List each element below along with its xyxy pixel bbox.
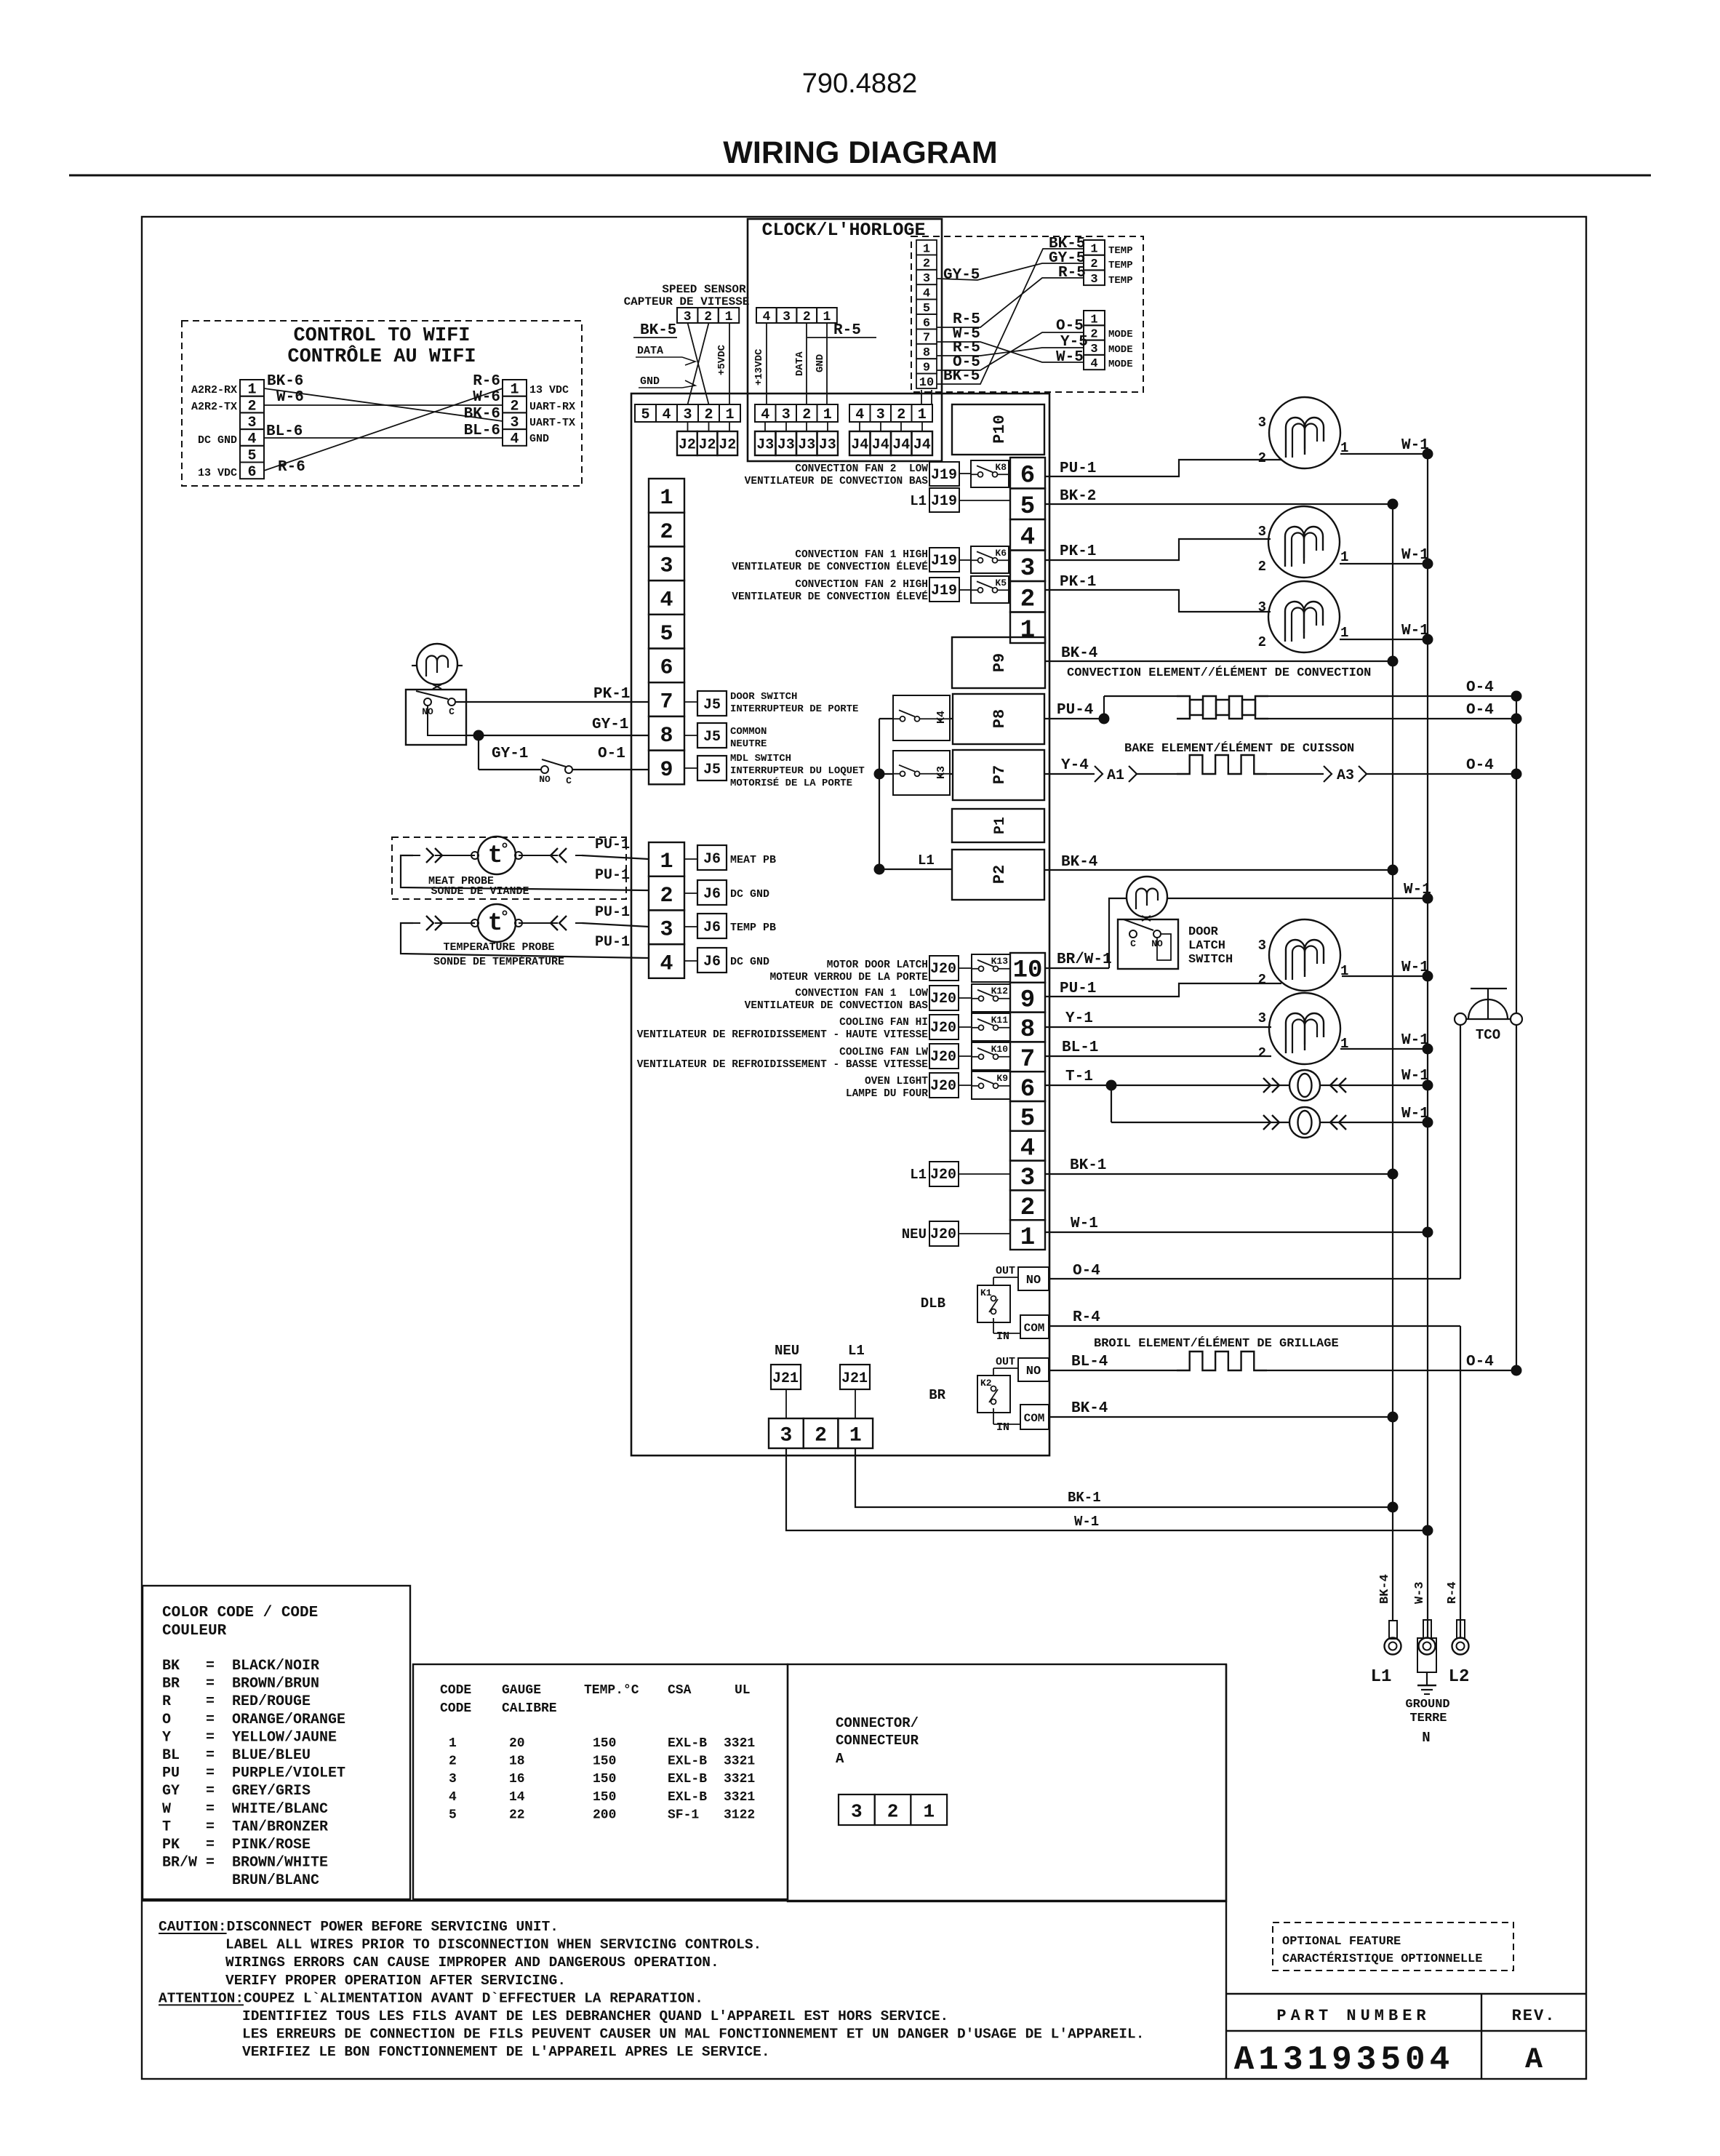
svg-text:IDENTIFIEZ TOUS LES FILS AVANT: IDENTIFIEZ TOUS LES FILS AVANT DE LES DE…	[242, 2008, 948, 2024]
svg-text:3: 3	[1020, 555, 1035, 583]
svg-text:4: 4	[1020, 524, 1035, 551]
svg-text:J19: J19	[931, 553, 957, 570]
svg-text:4: 4	[1090, 357, 1097, 371]
svg-text:4: 4	[662, 407, 671, 423]
svg-text:J2: J2	[679, 437, 696, 454]
svg-text:NEU: NEU	[775, 1343, 799, 1359]
svg-text:J3: J3	[777, 437, 795, 454]
svg-text:790.4882: 790.4882	[802, 68, 918, 99]
node oven light split	[1106, 1080, 1117, 1091]
svg-text:LAMPE DU FOUR: LAMPE DU FOUR	[846, 1088, 928, 1100]
wifi right connector pins 1-4	[503, 380, 527, 396]
J6 box temp pb	[697, 914, 727, 938]
svg-text:R-5: R-5	[1058, 265, 1086, 282]
svg-text:A3: A3	[1337, 767, 1354, 784]
svg-text:DOOR SWITCH: DOOR SWITCH	[730, 691, 797, 703]
svg-text:C: C	[1130, 938, 1136, 949]
svg-text:3: 3	[1090, 273, 1097, 287]
BK bus vertical	[1392, 504, 1393, 1621]
svg-text:O = ORANGE/ORANGE: O = ORANGE/ORANGE	[162, 1712, 345, 1728]
wire motor A to W bus	[1340, 453, 1428, 455]
svg-text:J4: J4	[872, 437, 889, 454]
svg-text:TCO: TCO	[1476, 1027, 1500, 1043]
J20 row7 K10 cooling fan lw	[929, 1044, 959, 1069]
ground symbol	[1426, 1672, 1428, 1685]
svg-text:J4: J4	[851, 437, 868, 454]
svg-text:TEMP: TEMP	[1108, 260, 1133, 271]
svg-text:O-4: O-4	[1466, 1354, 1494, 1370]
svg-text:REV.: REV.	[1512, 2007, 1556, 2025]
svg-text:CALIBRE: CALIBRE	[502, 1701, 557, 1716]
svg-text:9: 9	[1020, 986, 1035, 1014]
svg-text:1: 1	[1340, 549, 1348, 565]
svg-text:BK = BLACK/NOIR: BK = BLACK/NOIR	[162, 1658, 319, 1674]
svg-text:3: 3	[923, 272, 930, 286]
svg-text:CONVECTION FAN 2 LOW: CONVECTION FAN 2 LOW	[795, 463, 928, 475]
svg-text:6: 6	[247, 464, 256, 481]
P7 box	[953, 750, 1044, 800]
J2 wires	[687, 422, 689, 431]
svg-text:GND: GND	[815, 354, 826, 372]
svg-text:CONTROL TO WIFI: CONTROL TO WIFI	[293, 325, 470, 347]
J21 wires	[785, 1389, 787, 1418]
temperature probe symbol	[478, 904, 516, 942]
svg-text:INTERRUPTEUR DE PORTE: INTERRUPTEUR DE PORTE	[730, 703, 858, 715]
svg-text:K11: K11	[991, 1015, 1009, 1026]
svg-text:CONVECTION FAN 1 HIGH: CONVECTION FAN 1 HIGH	[795, 549, 928, 561]
J5 box mdl switch	[697, 756, 727, 780]
node L1 junction	[874, 864, 885, 875]
svg-text:J19: J19	[931, 493, 957, 510]
svg-text:J6: J6	[703, 886, 721, 903]
svg-text:L1: L1	[1371, 1667, 1392, 1687]
svg-text:4: 4	[1020, 1135, 1035, 1162]
svg-text:DATA: DATA	[637, 345, 663, 357]
svg-text:2: 2	[1258, 559, 1266, 575]
svg-text:W = WHITE/BLANC: W = WHITE/BLANC	[162, 1801, 328, 1818]
P9 box	[952, 637, 1045, 688]
svg-text:3: 3	[876, 407, 885, 423]
+5VDC wire	[729, 323, 730, 404]
svg-text:T-1: T-1	[1065, 1069, 1093, 1085]
svg-text:K13: K13	[991, 956, 1009, 967]
svg-text:2: 2	[923, 257, 930, 271]
svg-text:R-6: R-6	[473, 373, 500, 390]
DLB NO box	[1018, 1267, 1049, 1290]
svg-text:3321: 3321	[724, 1754, 755, 1769]
door motor	[417, 644, 457, 684]
svg-text:PU-1: PU-1	[595, 867, 630, 884]
svg-text:ATTENTION:COUPEZ L`ALIMENTATIO: ATTENTION:COUPEZ L`ALIMENTATION AVANT D`…	[159, 1990, 703, 2006]
svg-text:J3: J3	[798, 437, 815, 454]
svg-text:K9: K9	[996, 1073, 1008, 1084]
svg-text:MEAT PB: MEAT PB	[730, 854, 776, 866]
svg-text:BL-4: BL-4	[1071, 1354, 1108, 1370]
J20 row10 K13 motor door latch	[929, 956, 959, 981]
svg-text:1: 1	[918, 407, 927, 423]
svg-text:6: 6	[660, 656, 673, 681]
svg-text:J21: J21	[841, 1370, 868, 1387]
svg-text:R-5: R-5	[833, 322, 861, 339]
node BK bus top	[1388, 499, 1399, 510]
svg-text:4: 4	[660, 951, 673, 976]
svg-text:3: 3	[782, 407, 791, 423]
oven light 1	[1289, 1070, 1320, 1101]
J20 row3 L1	[929, 1162, 959, 1186]
K4 relay box	[893, 695, 950, 740]
svg-text:1: 1	[1090, 242, 1097, 256]
door switch box	[406, 690, 466, 745]
J4 plug boxes	[849, 431, 871, 455]
part number title box	[1226, 1993, 1586, 1995]
svg-text:6: 6	[923, 316, 930, 330]
svg-text:P2: P2	[991, 865, 1009, 884]
oven light 2	[1111, 1085, 1112, 1122]
svg-text:P8: P8	[991, 709, 1009, 728]
J19 plug row3 with K6	[929, 548, 959, 572]
svg-text:BR = BROWN/BRUN: BR = BROWN/BRUN	[162, 1676, 319, 1693]
svg-text:J5: J5	[703, 729, 721, 746]
svg-text:A2R2-TX: A2R2-TX	[191, 401, 237, 413]
svg-text:3122: 3122	[724, 1808, 755, 1822]
svg-text:PK-1: PK-1	[593, 686, 630, 703]
svg-text:WIRINGS ERRORS CAN CAUSE IMPRO: WIRINGS ERRORS CAN CAUSE IMPROPER AND DA…	[225, 1955, 719, 1971]
svg-text:COM: COM	[1024, 1412, 1045, 1425]
mdl switch	[479, 769, 541, 770]
clock right connector pins 1-10	[916, 240, 937, 255]
svg-text:MOTOR DOOR LATCH: MOTOR DOOR LATCH	[827, 959, 928, 971]
svg-text:LABEL ALL WIRES PRIOR TO DISCO: LABEL ALL WIRES PRIOR TO DISCONNECTION W…	[225, 1937, 761, 1953]
svg-text:C: C	[449, 706, 455, 717]
svg-text:UART-TX: UART-TX	[529, 417, 575, 429]
svg-text:13 VDC: 13 VDC	[198, 467, 237, 479]
svg-text:2: 2	[1090, 257, 1097, 271]
svg-text:CODE: CODE	[440, 1683, 471, 1698]
svg-text:Y-4: Y-4	[1061, 757, 1089, 774]
convection element upper resistor	[1104, 695, 1177, 697]
svg-text:1: 1	[1020, 617, 1035, 644]
svg-text:COULEUR: COULEUR	[162, 1623, 227, 1640]
motor door latch big	[1269, 919, 1340, 991]
J2 plug boxes	[677, 431, 697, 455]
svg-text:200: 200	[593, 1808, 616, 1822]
caution box top line	[142, 1900, 1226, 1901]
convection fan motor C	[1268, 581, 1340, 652]
svg-text:20: 20	[509, 1736, 525, 1751]
svg-text:TEMPERATURE PROBE: TEMPERATURE PROBE	[443, 941, 554, 954]
svg-text:3321: 3321	[724, 1790, 755, 1805]
svg-text:CSA: CSA	[668, 1683, 692, 1698]
J3 plug boxes	[755, 431, 776, 455]
svg-text:TEMP: TEMP	[1108, 275, 1133, 287]
svg-text:5: 5	[1020, 1106, 1035, 1133]
svg-text:A1: A1	[1107, 767, 1124, 784]
svg-text:4: 4	[510, 431, 519, 448]
connector A box	[788, 1664, 1226, 1901]
svg-text:J6: J6	[703, 851, 721, 868]
svg-text:BK-4: BK-4	[1378, 1574, 1392, 1604]
svg-text:CAPTEUR DE VITESSE: CAPTEUR DE VITESSE	[624, 295, 750, 308]
svg-text:EXL-B: EXL-B	[668, 1736, 707, 1751]
svg-text:SONDE DE TEMPÉRATURE: SONDE DE TEMPÉRATURE	[433, 955, 564, 968]
J19 plug row2 with K5	[929, 578, 959, 602]
J21 pin row 3-2-1	[769, 1418, 804, 1448]
svg-text:VERIFIEZ LE BON FONCTIONNEMENT: VERIFIEZ LE BON FONCTIONNEMENT DE L'APPA…	[242, 2044, 770, 2060]
svg-text:1: 1	[1340, 625, 1348, 641]
svg-text:150: 150	[593, 1736, 616, 1751]
svg-text:COM: COM	[1024, 1322, 1045, 1335]
svg-text:A: A	[836, 1751, 844, 1767]
title underline	[69, 175, 1651, 177]
svg-text:TEMP: TEMP	[1108, 245, 1133, 257]
svg-text:UL: UL	[735, 1683, 751, 1698]
svg-text:GY-1: GY-1	[492, 746, 528, 762]
svg-text:3: 3	[684, 310, 692, 324]
svg-text:GY = GREY/GRIS: GY = GREY/GRIS	[162, 1783, 311, 1800]
J20 row1 NEU	[929, 1221, 959, 1246]
P1 box	[952, 809, 1044, 842]
svg-text:K10: K10	[991, 1044, 1009, 1055]
K3 relay box	[893, 751, 950, 795]
svg-text:PU = PURPLE/VIOLET: PU = PURPLE/VIOLET	[162, 1765, 345, 1782]
svg-text:SPEED SENSOR: SPEED SENSOR	[662, 283, 746, 296]
optional feature dashed box	[1273, 1923, 1513, 1971]
svg-text:J21: J21	[772, 1370, 799, 1387]
svg-text:COOLING FAN HI: COOLING FAN HI	[839, 1017, 928, 1029]
svg-text:150: 150	[593, 1772, 616, 1786]
svg-text:PK-1: PK-1	[1060, 574, 1096, 591]
svg-text:DC GND: DC GND	[198, 434, 237, 447]
svg-text:GROUND: GROUND	[1405, 1698, 1449, 1712]
node W bus motorA	[1423, 449, 1433, 460]
svg-text:1: 1	[823, 407, 832, 423]
svg-text:3321: 3321	[724, 1772, 755, 1786]
J20 row6 K9 oven light	[929, 1073, 959, 1098]
svg-text:CODE: CODE	[440, 1701, 471, 1716]
svg-text:3: 3	[1020, 1165, 1035, 1192]
svg-text:1: 1	[923, 1800, 935, 1822]
svg-text:2: 2	[1258, 450, 1266, 466]
svg-text:J20: J20	[930, 1049, 956, 1066]
svg-text:10: 10	[919, 376, 934, 390]
node convection element split	[1099, 714, 1110, 724]
gauge table box	[413, 1664, 788, 1899]
svg-text:13 VDC: 13 VDC	[529, 384, 569, 396]
connector 4-3-2-1 J4 header	[849, 404, 871, 422]
svg-text:BR/W = BROWN/WHITE: BR/W = BROWN/WHITE	[162, 1855, 328, 1872]
svg-text:1: 1	[660, 850, 673, 874]
svg-text:22: 22	[509, 1808, 525, 1822]
svg-text:NEU: NEU	[902, 1226, 927, 1242]
door switch inner path	[428, 706, 466, 735]
P10 box	[952, 404, 1044, 455]
svg-text:5: 5	[923, 302, 930, 316]
svg-text:K6: K6	[995, 548, 1007, 559]
svg-text:BROIL ELEMENT/ÉLÉMENT DE GRILL: BROIL ELEMENT/ÉLÉMENT DE GRILLAGE	[1094, 1336, 1339, 1351]
svg-text:10: 10	[1013, 957, 1043, 985]
svg-text:5: 5	[641, 407, 649, 423]
svg-text:°: °	[500, 909, 509, 927]
svg-text:O-4: O-4	[1466, 679, 1494, 696]
svg-text:K2: K2	[980, 1378, 992, 1389]
J20 pin column 10-1	[1010, 953, 1045, 983]
mode connector pins 1-4	[1084, 311, 1105, 325]
svg-text:BK-4: BK-4	[1071, 1400, 1108, 1417]
svg-text:VENTILATEUR DE CONVECTION BAS: VENTILATEUR DE CONVECTION BAS	[745, 476, 929, 487]
J19 plug row6 with K8	[929, 462, 959, 486]
svg-text:P1: P1	[992, 817, 1009, 834]
J3 wires	[764, 422, 766, 431]
svg-text:O-5: O-5	[953, 354, 980, 371]
svg-text:CONVECTION ELEMENT//ÉLÉMENT DE: CONVECTION ELEMENT//ÉLÉMENT DE CONVECTIO…	[1067, 666, 1371, 680]
svg-text:GY-1: GY-1	[592, 716, 628, 733]
pin column 1-4 J6	[649, 842, 684, 877]
svg-text:BK-4: BK-4	[1061, 854, 1097, 871]
svg-text:6: 6	[1020, 1076, 1035, 1103]
svg-text:P9: P9	[991, 653, 1009, 672]
svg-text:LES ERREURS DE CONNECTION DE F: LES ERREURS DE CONNECTION DE FILS PEUVEN…	[242, 2027, 1144, 2043]
svg-text:J5: J5	[703, 697, 721, 714]
TCO left leg	[1460, 1025, 1461, 1279]
svg-text:L1: L1	[918, 853, 935, 869]
BR NO box	[1018, 1358, 1049, 1381]
svg-text:9: 9	[660, 758, 673, 783]
TCO thermal cutoff	[1471, 988, 1507, 989]
speed sensor connector 3-2-1	[677, 308, 697, 323]
svg-text:C: C	[566, 775, 572, 786]
svg-text:7: 7	[923, 332, 930, 346]
wire big latch motor to W bus	[1342, 975, 1428, 977]
svg-text:1: 1	[823, 310, 831, 324]
convection fan motor B	[1268, 506, 1340, 578]
svg-text:MODE: MODE	[1108, 344, 1133, 356]
connector 5-4-3-2-1 J2 header	[635, 404, 656, 422]
svg-text:14: 14	[509, 1790, 525, 1805]
node door common junction	[473, 730, 484, 741]
color code box	[143, 1586, 410, 1899]
svg-text:Y-1: Y-1	[1065, 1010, 1093, 1027]
P8 box	[953, 694, 1044, 744]
svg-text:K5: K5	[995, 578, 1007, 588]
svg-text:GAUGE: GAUGE	[502, 1683, 541, 1698]
cooling fan motor	[1269, 993, 1340, 1064]
svg-text:5: 5	[449, 1808, 457, 1822]
svg-text:3: 3	[660, 554, 673, 579]
svg-text:3: 3	[1258, 938, 1266, 954]
svg-text:3321: 3321	[724, 1736, 755, 1751]
svg-text:4: 4	[660, 588, 673, 612]
svg-text:2: 2	[897, 407, 905, 423]
svg-text:PU-1: PU-1	[595, 934, 630, 951]
svg-text:3: 3	[1258, 415, 1266, 431]
svg-text:J19: J19	[931, 583, 957, 599]
svg-text:NEUTRE: NEUTRE	[730, 738, 767, 750]
svg-text:O-4: O-4	[1073, 1263, 1100, 1279]
wire motor C to W bus	[1340, 639, 1428, 640]
svg-text:2: 2	[704, 407, 713, 423]
svg-text:J5: J5	[703, 762, 721, 778]
svg-text:L2: L2	[1449, 1667, 1470, 1687]
svg-text:W-1: W-1	[1071, 1215, 1098, 1232]
svg-text:J20: J20	[930, 1020, 956, 1037]
svg-text:K12: K12	[991, 986, 1009, 997]
svg-text:6: 6	[1020, 462, 1035, 490]
svg-text:CARACTÉRISTIQUE OPTIONNELLE: CARACTÉRISTIQUE OPTIONNELLE	[1282, 1952, 1482, 1966]
J4 wires	[859, 422, 860, 431]
svg-text:8: 8	[1020, 1016, 1035, 1044]
svg-text:Y = YELLOW/JAUNE: Y = YELLOW/JAUNE	[162, 1729, 337, 1746]
svg-text:O-4: O-4	[1466, 702, 1494, 719]
svg-text:J3: J3	[819, 437, 836, 454]
svg-text:SONDE DE VIANDE: SONDE DE VIANDE	[431, 885, 529, 898]
svg-text:PU-4: PU-4	[1057, 702, 1093, 719]
svg-text:SWITCH: SWITCH	[1188, 953, 1233, 967]
svg-text:J4: J4	[892, 437, 910, 454]
svg-text:3: 3	[449, 1772, 457, 1786]
svg-text:5: 5	[1020, 493, 1035, 521]
svg-text:P7: P7	[991, 765, 1009, 784]
control-to-wifi dashed box	[182, 321, 582, 486]
svg-text:IN: IN	[996, 1421, 1009, 1434]
svg-text:MODE: MODE	[1108, 359, 1133, 370]
svg-text:3: 3	[783, 310, 791, 324]
svg-text:3: 3	[1258, 599, 1266, 615]
meat probe dashed box	[392, 837, 626, 899]
svg-text:A: A	[1525, 2044, 1543, 2077]
svg-text:J6: J6	[703, 919, 721, 936]
svg-text:BR: BR	[929, 1387, 945, 1403]
svg-text:T = TAN/BRONZER: T = TAN/BRONZER	[162, 1818, 328, 1835]
svg-text:1: 1	[725, 407, 734, 423]
svg-text:+13VDC: +13VDC	[753, 348, 765, 386]
svg-text:1: 1	[923, 242, 930, 256]
svg-text:IN: IN	[996, 1330, 1009, 1343]
svg-text:A2R2-RX: A2R2-RX	[191, 384, 237, 396]
clock wires to J3 +13VDC DATA GND	[766, 323, 767, 404]
svg-text:COMMON: COMMON	[730, 726, 767, 738]
svg-text:K8: K8	[995, 462, 1007, 473]
svg-text:2: 2	[1020, 1194, 1035, 1222]
svg-text:PU-1: PU-1	[595, 837, 630, 853]
BR COM box	[1020, 1405, 1049, 1429]
svg-text:Y-5: Y-5	[1060, 334, 1088, 351]
O-4 bus TCO right leg	[1516, 696, 1517, 1013]
svg-text:2: 2	[1258, 634, 1266, 650]
svg-text:O-5: O-5	[1056, 318, 1084, 335]
door latch small motor	[1127, 877, 1167, 917]
connector 4-3-2-1 J3 header	[755, 404, 776, 422]
svg-text:2: 2	[815, 1425, 827, 1448]
svg-text:PU-1: PU-1	[1060, 460, 1096, 477]
convection element lower resistor	[1177, 700, 1268, 719]
svg-text:SF-1: SF-1	[668, 1808, 699, 1822]
svg-text:K3: K3	[935, 766, 948, 779]
svg-text:W-6: W-6	[276, 389, 304, 406]
convection fan motor A	[1269, 397, 1340, 468]
svg-text:NO: NO	[539, 774, 551, 785]
svg-text:8: 8	[923, 346, 930, 360]
svg-text:W-5: W-5	[1056, 349, 1084, 366]
svg-text:1: 1	[660, 486, 673, 511]
W bus vertical	[1427, 454, 1428, 1639]
svg-text:3: 3	[1258, 1010, 1266, 1026]
svg-text:CLOCK/L'HORLOGE: CLOCK/L'HORLOGE	[761, 220, 925, 241]
svg-text:J20: J20	[930, 1078, 956, 1095]
svg-text:W-3: W-3	[1413, 1581, 1427, 1604]
J5 box common	[697, 723, 727, 748]
svg-text:TERRE: TERRE	[1409, 1712, 1447, 1725]
J20 row8 K11 cooling fan hi	[929, 1015, 959, 1039]
